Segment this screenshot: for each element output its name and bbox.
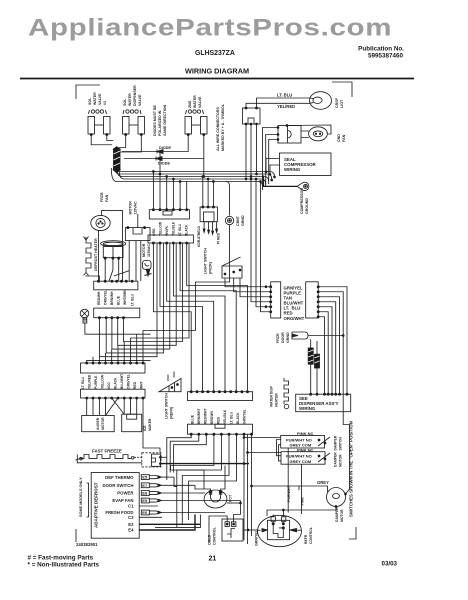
svg-text:BLUE: BLUE (191, 414, 195, 424)
wire valve2 left to diode block (119, 135, 126, 148)
damper switch assy 2 (281, 448, 330, 465)
wire pur/wht from assy1 down (287, 448, 289, 513)
wires refr lower connector down-left (167, 434, 252, 544)
svg-text:YEL/BLK: YEL/BLK (172, 221, 176, 236)
svg-text:E4: E4 (128, 527, 134, 532)
svg-text:DOOR: DOOR (281, 332, 285, 343)
wire relay to crisp light LT BLU (257, 98, 310, 108)
svg-text:FRZR: FRZR (276, 333, 280, 343)
wire heater bottom to evap connector (86, 275, 99, 281)
wire drops bus to dispenser plug (202, 176, 214, 207)
svg-text:POWER: POWER (117, 490, 134, 495)
diode D1 symbol and wire from valve3 left (122, 135, 188, 154)
svg-text:E9: E9 (142, 498, 148, 503)
fan-out wires from right connector (318, 287, 349, 489)
spade terminal E5 (141, 475, 174, 480)
svg-text:YEL/BLK: YEL/BLK (223, 409, 227, 424)
wires into damper assys from left (243, 437, 299, 490)
svg-text:E5: E5 (142, 475, 148, 480)
fresh food connector upper (81, 362, 146, 373)
svg-text:GREY COM: GREY COM (290, 459, 312, 464)
evap fan motor plug (125, 214, 150, 241)
svg-text:GREY: GREY (317, 480, 329, 485)
freezer harness wire labels (152, 221, 189, 236)
label damper switch 1 (334, 435, 343, 450)
label light switch frzr (204, 248, 213, 274)
hatched diode block (114, 147, 121, 173)
svg-text:DISPENSER: DISPENSER (133, 85, 137, 106)
spade terminal E6 (141, 510, 225, 515)
svg-text:LT. BLU: LT. BLU (230, 411, 234, 424)
svg-text:RED: RED (133, 381, 137, 389)
svg-text:5995387460: 5995387460 (368, 53, 404, 60)
freezer light bulb (80, 309, 89, 323)
svg-text:E2: E2 (128, 522, 134, 527)
svg-text:2ND: 2ND (188, 100, 192, 108)
pur-wht tag 2 (315, 354, 320, 368)
wires compressor box left to down-verticals (263, 128, 280, 191)
svg-text:(FRZR): (FRZR) (209, 261, 213, 274)
cabinet harness wire labels (284, 286, 305, 322)
mesh into fresh food connector top (87, 225, 230, 363)
svg-text:GRN/YEL: GRN/YEL (255, 529, 259, 546)
svg-text:WATER: WATER (128, 93, 132, 106)
refr connector harness labels (191, 408, 247, 424)
svg-text:BRN/WHT: BRN/WHT (197, 408, 201, 424)
svg-text:SOL: SOL (88, 97, 92, 105)
svg-text:CONTROL: CONTROL (213, 526, 217, 545)
svg-text:LT. BLU: LT. BLU (131, 293, 135, 306)
svg-text:PCT: PCT (229, 494, 233, 502)
svg-text:MOTOR: MOTOR (340, 509, 344, 522)
svg-text:FAN: FAN (342, 134, 346, 142)
svg-text:COMPRESSOR: COMPRESSOR (300, 188, 304, 214)
svg-text:FAN: FAN (105, 194, 109, 202)
svg-text:LT. BLU: LT. BLU (277, 93, 292, 98)
svg-text:# = Fast-moving Parts: # = Fast-moving Parts (28, 555, 94, 562)
svg-text:03/03: 03/03 (382, 561, 398, 568)
wire seal box to compressor ground (264, 176, 298, 187)
svg-text:MARKED BY + & - SYMBOL: MARKED BY + & - SYMBOL (221, 103, 225, 151)
svg-text:COLD: COLD (208, 534, 212, 545)
wire valve2 right down (121, 135, 142, 153)
solenoid coil water valve 3 (186, 110, 204, 114)
wire tag1 to dispenser box (310, 339, 312, 394)
wires plug to evap connector (129, 241, 141, 282)
defrost thermostat bimetal (101, 241, 126, 259)
refr control ellipse (258, 515, 302, 546)
valve body 1 (88, 117, 110, 136)
label water valve dispenser (123, 85, 142, 106)
svg-text:GRND: GRND (286, 332, 290, 343)
label compressor ground (300, 188, 309, 214)
wire connector relay block top right (243, 107, 261, 125)
frame corner top-left (76, 85, 100, 99)
wires fan area to evap connector (99, 211, 123, 282)
svg-text:C1: C1 (128, 504, 134, 509)
mold heater box (122, 414, 142, 432)
freezer harness connector lower (148, 235, 193, 244)
svg-text:GROUND: GROUND (305, 198, 309, 214)
svg-text:DOOR SWITCH: DOOR SWITCH (102, 483, 133, 488)
ice maker motor mini symbol (143, 261, 152, 277)
label all wire connectors (216, 103, 225, 151)
wires thermostat to evap connector (105, 258, 119, 281)
light switch refr lever (159, 372, 181, 392)
refr connector lower (188, 424, 253, 435)
label cold control (208, 526, 217, 545)
ptc starter circle (204, 490, 227, 508)
label fan motor 115vac (129, 201, 138, 215)
solenoid coil water valve 2 (123, 110, 141, 114)
svg-text:PURPLE: PURPLE (94, 375, 98, 389)
valve body 3 (185, 117, 207, 136)
evap connector lower (94, 308, 140, 319)
crisper light lamp (310, 92, 332, 110)
water dispenser heater zigzag (284, 378, 289, 409)
svg-text:E7: E7 (142, 483, 148, 488)
wire valve1 left to diode block (91, 135, 112, 145)
svg-text:CRSP: CRSP (335, 97, 339, 108)
compressor ground lug (297, 182, 309, 190)
svg-text:MOTOR: MOTOR (129, 201, 133, 215)
svg-text:ORG/YEL: ORG/YEL (127, 374, 131, 389)
svg-text:SOME MODELS ONLY: SOME MODELS ONLY (79, 477, 83, 517)
defrost heater zigzag (84, 237, 92, 276)
svg-text:AUGER: AUGER (96, 417, 100, 430)
label mold heater (143, 418, 152, 431)
condenser fan motor (287, 125, 331, 141)
svg-text:E8: E8 (142, 491, 148, 496)
svg-text:BLU/WHT: BLU/WHT (120, 374, 124, 389)
wire diagonal evap (114, 271, 129, 276)
damper switch assy 1 (281, 431, 330, 448)
freezer harness connector upper (149, 209, 189, 219)
svg-text:CONTROL: CONTROL (309, 527, 313, 544)
refr connector upper (188, 391, 253, 401)
freezer door ground label (276, 332, 290, 343)
label damper motor (335, 507, 344, 522)
solenoid coil water valve 1 (89, 110, 107, 114)
damper assy left bracket wires (277, 440, 282, 461)
svg-text:WIRING: WIRING (299, 406, 316, 411)
cabinet ground stem (226, 182, 230, 216)
wire E4 row (139, 515, 195, 531)
svg-text:BLACK: BLACK (185, 224, 189, 236)
frame corner bottom-right (349, 527, 356, 539)
svg-text:YELLOW: YELLOW (159, 221, 163, 236)
evap connector upper (94, 280, 138, 290)
svg-text:LIGHT SWITCH: LIGHT SWITCH (204, 248, 208, 274)
control board box (91, 473, 139, 539)
svg-text:DEF THERMO: DEF THERMO (105, 475, 134, 480)
svg-text:MOTOR: MOTOR (101, 417, 105, 430)
wires fresh food connector to motor boxes (87, 398, 160, 453)
fresh food harness wire labels (81, 374, 144, 389)
label water valve W1 (88, 92, 107, 105)
svg-text:LT. BLU: LT. BLU (178, 223, 182, 236)
label 2nd water valve (188, 95, 202, 108)
svg-text:DAMPER: DAMPER (334, 435, 338, 450)
svg-text:WHT/BRN: WHT/BRN (123, 289, 127, 305)
wires bus ends to grn-yel connector rows (250, 178, 271, 312)
fast freeze switch line (76, 455, 142, 463)
wire damper motor bottom to refr control (267, 507, 336, 517)
svg-text:RED: RED (217, 416, 221, 424)
main bus wires (111, 168, 275, 187)
freezer fan motor (91, 215, 110, 230)
mesh freezer-lower to refr connector (153, 243, 247, 392)
wires C1 C3 rows (139, 506, 162, 517)
svg-text:LT. BLU: LT. BLU (81, 376, 85, 389)
wires into refr control top (273, 509, 284, 517)
wire tag2 to dispenser box (316, 341, 318, 394)
svg-text:VALVE: VALVE (98, 93, 102, 105)
evap harness wire labels (97, 289, 135, 306)
wire relay drops to bus (245, 124, 257, 180)
svg-text:RED: RED (284, 311, 293, 316)
label cabinet ground (236, 215, 245, 226)
svg-text:ADJ: ADJ (107, 382, 111, 389)
control board pin labels (102, 475, 134, 532)
wire E2 row (139, 523, 200, 525)
label some models only (79, 477, 83, 517)
cold control box (222, 519, 243, 541)
label water dispenser heater (270, 385, 279, 407)
svg-text:REFR: REFR (304, 534, 308, 544)
bracket some models (87, 483, 89, 517)
svg-text:SWITCH: SWITCH (339, 437, 343, 451)
valve body 2 (123, 117, 145, 136)
cabinet harness connector right (306, 282, 320, 318)
svg-text:KDR-87BELD: KDR-87BELD (197, 225, 201, 247)
svg-text:MOTOR: MOTOR (339, 454, 343, 467)
svg-text:DAMPER: DAMPER (334, 452, 338, 467)
svg-text:AppliancePartsPros.com: AppliancePartsPros.com (28, 14, 392, 41)
wire drops bus to freezer connector (153, 151, 187, 210)
auger motor box (82, 416, 115, 432)
mesh evap-lower down to fresh food connector (99, 243, 182, 357)
frame corner bottom-left (75, 529, 77, 542)
svg-text:WV/PL: WV/PL (165, 226, 169, 236)
svg-text:WHT: WHT (140, 381, 144, 389)
svg-text:FRZR: FRZR (100, 192, 104, 202)
svg-text:GRN/YEL: GRN/YEL (243, 409, 247, 424)
svg-text:ADAPTIVE DEFROST: ADAPTIVE DEFROST (94, 482, 99, 528)
label refr control (304, 527, 313, 544)
svg-text:SOL: SOL (123, 98, 127, 106)
svg-text:POLARIZED IN: POLARIZED IN (158, 110, 162, 136)
svg-text:(REFR): (REFR) (170, 406, 174, 419)
wires cold control feeds (209, 501, 241, 544)
svg-text:YELLOW: YELLOW (101, 374, 105, 389)
wire damper motor right up (346, 489, 350, 494)
svg-text:WATER: WATER (93, 92, 97, 105)
svg-text:PINK NC: PINK NC (297, 448, 314, 453)
svg-text:FAST FREEZE: FAST FREEZE (92, 449, 122, 454)
wire grey to damper motor (299, 486, 328, 492)
freezer door ground lug (292, 332, 344, 339)
svg-text:CBNT: CBNT (236, 215, 240, 226)
label light switch refr (165, 393, 174, 419)
wire bulb down to mesh (85, 323, 151, 334)
svg-text:LIGT: LIGT (340, 99, 344, 108)
diode D2 symbol and wire from valve3 right (124, 135, 205, 178)
svg-text:VALVE: VALVE (198, 96, 202, 108)
freezer light switch lever (222, 257, 242, 278)
svg-text:PI RED: PI RED (217, 232, 221, 244)
frame corner top-right (332, 82, 352, 97)
svg-text:SAME DIRECTION: SAME DIRECTION (163, 104, 167, 136)
svg-text:BLACK: BLACK (114, 377, 118, 389)
svg-text:VALVE: VALVE (138, 94, 142, 106)
svg-text:GRND: GRND (241, 215, 245, 226)
svg-text:WATER: WATER (193, 95, 197, 108)
spade terminal E7 (141, 483, 195, 488)
svg-text:E6: E6 (142, 510, 148, 515)
svg-text:CND: CND (337, 134, 341, 142)
svg-text:#1: #1 (103, 101, 107, 105)
svg-text:WATER DISP: WATER DISP (270, 385, 274, 407)
staircase corners to bottom components (171, 470, 206, 493)
wire valve1 right to diode block (107, 135, 114, 141)
svg-text:BLUE: BLUE (117, 295, 121, 305)
svg-text:MAKER: MAKER (148, 418, 152, 431)
label freezer fan (100, 192, 109, 202)
wires light switch frzr drops (225, 278, 271, 297)
title rule (20, 78, 414, 80)
svg-text:GLHS237ZA: GLHS237ZA (195, 50, 235, 57)
spade terminal E8 (141, 491, 200, 496)
svg-text:BLACK: BLACK (236, 412, 240, 424)
svg-text:PUR/WHT: PUR/WHT (287, 484, 291, 502)
svg-text:RED/WHT: RED/WHT (204, 409, 208, 424)
dispenser plug arrow leads (203, 222, 218, 235)
spade terminal E9 (141, 498, 240, 503)
svg-text:BRN/WH: BRN/WH (110, 291, 114, 305)
svg-text:WIRING: WIRING (284, 167, 301, 172)
svg-text:EVAP FAN: EVAP FAN (112, 498, 133, 503)
seal compressor wiring box (280, 153, 332, 176)
svg-text:LIGHT SWITCH: LIGHT SWITCH (165, 393, 169, 419)
svg-text:YEL/RED: YEL/RED (88, 374, 92, 389)
svg-text:C3: C3 (128, 515, 134, 520)
cabinet ground lug (225, 216, 233, 224)
label condenser fan (337, 134, 346, 142)
svg-text:PINK NC: PINK NC (297, 431, 314, 436)
svg-text:SWITCHES SHOWN IN THE "OPEN" P: SWITCHES SHOWN IN THE "OPEN" POSITION (349, 421, 354, 517)
svg-text:115VAC: 115VAC (147, 243, 151, 257)
label damper switch 2 (334, 452, 343, 467)
svg-text:BROWN: BROWN (210, 411, 214, 424)
dispenser plug connector (200, 206, 217, 222)
wire relay to crisp light YEL/RED (246, 103, 310, 108)
svg-text:DIODE: DIODE (159, 146, 171, 150)
wires ptc top hooks (204, 466, 225, 492)
fast freeze switch box (142, 453, 249, 467)
cabinet harness connector left (270, 282, 281, 318)
svg-text:DIODES MUST BE: DIODES MUST BE (153, 104, 157, 136)
see dispenser assy wiring box (296, 393, 351, 412)
svg-text:21: 21 (209, 556, 217, 563)
svg-text:WIRING DIAGRAM: WIRING DIAGRAM (185, 67, 249, 76)
wire pink from assy2 down (301, 464, 303, 514)
svg-text:Publication No.: Publication No. (358, 46, 404, 53)
label diodes must be polarized (153, 104, 167, 136)
svg-text:RED/WH: RED/WH (97, 291, 101, 305)
wire cold control to refr ellipse (243, 529, 258, 531)
svg-text:ICE: ICE (143, 425, 147, 431)
svg-text:ORG/YEL: ORG/YEL (104, 290, 108, 305)
svg-text:ORG/WHT: ORG/WHT (284, 316, 305, 321)
fresh food connector lower (81, 389, 146, 399)
label crisper light (335, 97, 344, 108)
wire lower-left elbow (155, 515, 200, 528)
svg-text:* = Non-Illustrated Parts: * = Non-Illustrated Parts (28, 562, 100, 569)
label defrost heater (94, 238, 98, 271)
svg-text:240382901: 240382901 (76, 542, 98, 547)
damper motor (327, 488, 347, 508)
svg-text:ALL WIRE CONNECTORS: ALL WIRE CONNECTORS (216, 107, 220, 151)
svg-text:HEATER: HEATER (275, 393, 279, 407)
pur-wht tag 1 (308, 348, 313, 364)
compressor relay overload box (277, 125, 301, 143)
svg-text:YEL/RED: YEL/RED (277, 104, 295, 109)
svg-text:DEFROST HEATER: DEFROST HEATER (94, 238, 98, 271)
svg-text:MOTOR: MOTOR (142, 243, 146, 257)
svg-text:115VAC: 115VAC (134, 201, 138, 215)
